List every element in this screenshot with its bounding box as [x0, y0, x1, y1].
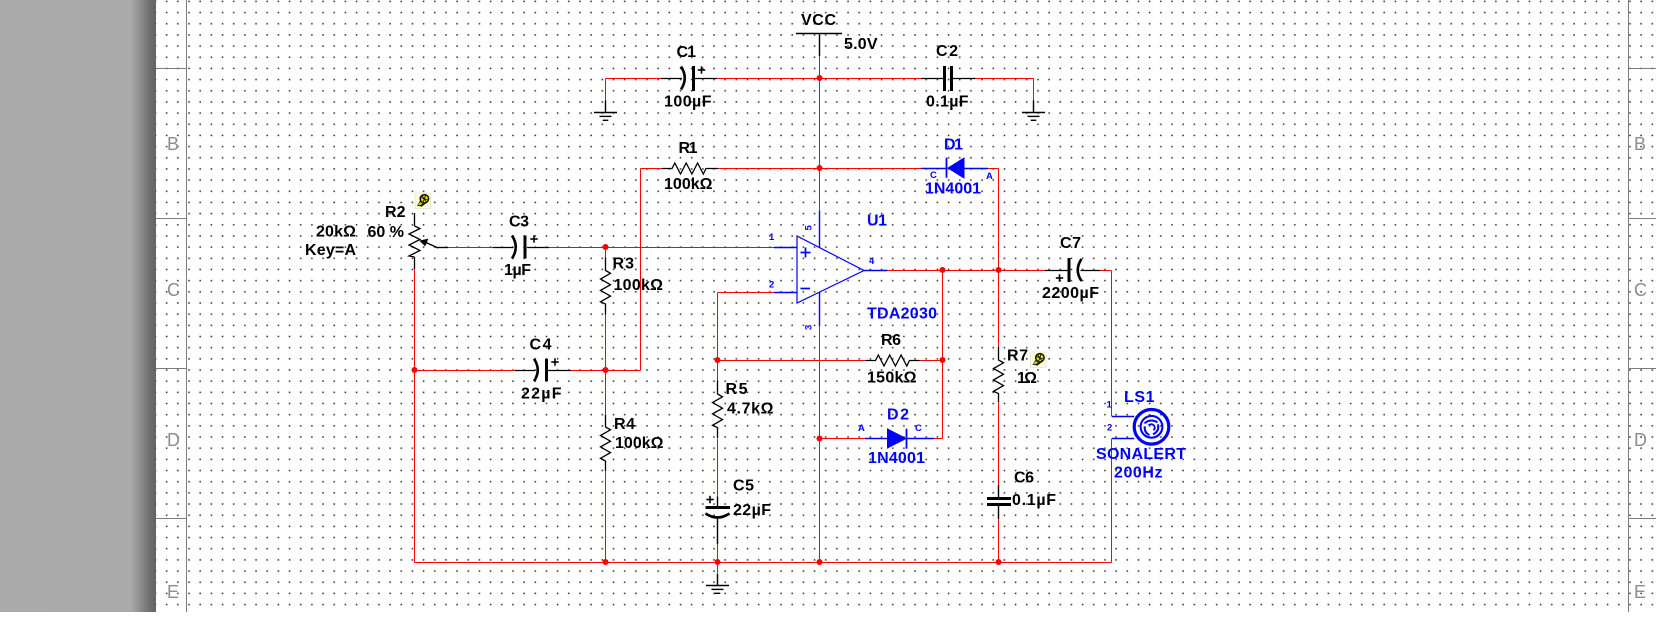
svg-text:1Ω: 1Ω	[1017, 370, 1037, 387]
wire LS1 pin2 down to bus	[1111, 439, 1113, 563]
node junction bus C5	[715, 559, 721, 565]
svg-text:U1: U1	[867, 213, 887, 230]
node junction plus input R3	[603, 244, 609, 250]
svg-text:R3: R3	[613, 256, 635, 273]
svg-text:100µF: 100µF	[664, 94, 712, 111]
wire output to R6 column	[942, 271, 944, 361]
sheet border left column line	[186, 0, 188, 612]
diode D2 symbol	[865, 429, 934, 449]
sheet border right column line	[1628, 0, 1630, 612]
svg-text:R1: R1	[679, 140, 698, 157]
wire wiper to C3	[448, 247, 493, 249]
ground under C2	[1022, 101, 1045, 121]
resistor R3 symbol	[601, 258, 611, 315]
svg-text:4.7kΩ: 4.7kΩ	[727, 401, 774, 418]
wire R4 top lead wire	[605, 371, 607, 415]
svg-text:1N4001: 1N4001	[925, 180, 981, 197]
resistor R7 symbol	[994, 347, 1004, 402]
svg-text:B: B	[1634, 134, 1646, 154]
svg-text:C1: C1	[677, 44, 697, 61]
svg-text:A: A	[858, 423, 865, 434]
svg-text:20kΩ: 20kΩ	[316, 223, 356, 240]
wire top rail middle segment	[717, 78, 921, 80]
wire C3 to op-amp plus input	[549, 247, 774, 249]
capacitor C4 symbol	[515, 358, 571, 381]
wire R5 top lead wire	[717, 361, 719, 381]
potentiometer R2 symbol	[409, 213, 448, 269]
wire R6 row right	[920, 360, 943, 362]
svg-text:Key=A: Key=A	[305, 242, 356, 259]
wire C2 ground drop	[1033, 79, 1035, 102]
svg-text:100kΩ: 100kΩ	[615, 435, 664, 452]
wire R7 top lead wire	[998, 271, 1000, 348]
svg-text:C5: C5	[733, 478, 754, 495]
wire R1 left column	[640, 169, 642, 371]
resistor R4 symbol	[601, 415, 611, 471]
svg-text:R7: R7	[1007, 348, 1028, 365]
resistor R5 symbol	[713, 381, 723, 439]
svg-text:60 %: 60 %	[368, 224, 405, 241]
svg-text:A: A	[986, 171, 993, 182]
border zone letters left	[167, 134, 180, 602]
wire C1 ground drop	[605, 79, 607, 102]
resistor R1 symbol	[662, 163, 718, 174]
svg-text:C: C	[930, 170, 937, 181]
wire C6 to bus	[998, 519, 1000, 563]
svg-text:C6: C6	[1014, 469, 1034, 486]
capacitor C5 symbol	[706, 496, 731, 544]
node junction bus R4	[603, 559, 609, 565]
svg-text:3: 3	[804, 325, 815, 330]
svg-text:R2: R2	[385, 204, 406, 221]
node junction bus C6	[996, 559, 1002, 565]
svg-text:5.0V: 5.0V	[844, 36, 878, 53]
svg-text:D2: D2	[887, 407, 909, 424]
svg-text:TDA2030: TDA2030	[867, 306, 937, 323]
wire output row	[888, 270, 1046, 272]
wire R6 row left	[718, 360, 866, 362]
wire C4 row left	[415, 370, 515, 372]
wire R1 row middle	[718, 168, 921, 170]
svg-text:LS1: LS1	[1124, 389, 1155, 406]
capacitor C1 symbol	[661, 66, 717, 91]
wire R2 bottom column	[414, 269, 416, 563]
svg-text:150kΩ: 150kΩ	[867, 369, 917, 386]
interactive key icon R2	[415, 193, 431, 209]
svg-text:200Hz: 200Hz	[1114, 465, 1163, 482]
power VCC symbol	[796, 34, 842, 57]
svg-text:2: 2	[1107, 423, 1112, 434]
capacitor C3 symbol	[493, 235, 549, 258]
diode D1 symbol	[921, 158, 988, 178]
svg-text:SONALERT: SONALERT	[1096, 446, 1186, 463]
wire C4 row right	[571, 370, 641, 372]
resistor R6 symbol	[866, 355, 920, 366]
capacitor C7 symbol	[1045, 258, 1100, 282]
svg-text:100kΩ: 100kΩ	[664, 176, 713, 193]
svg-text:0.1µF: 0.1µF	[926, 94, 969, 111]
svg-text:E: E	[167, 582, 179, 602]
node junction bus pin3	[817, 559, 823, 565]
left gray panel	[0, 0, 156, 612]
node junction R6 right	[940, 357, 946, 363]
svg-text:2200µF: 2200µF	[1042, 285, 1099, 302]
node junction VCC R1 row	[817, 165, 823, 171]
wire R4 bottom to bus	[605, 471, 607, 563]
wire D2 row left	[820, 438, 866, 440]
node junction D2 left	[817, 436, 823, 442]
wire minus input row	[718, 292, 775, 294]
wire R3 bottom to C4 row	[605, 315, 607, 371]
border row separators right	[1629, 69, 1656, 519]
svg-text:R5: R5	[726, 381, 748, 398]
wire minus input down column	[717, 293, 719, 361]
svg-text:E: E	[1634, 582, 1646, 602]
svg-text:1: 1	[1107, 400, 1113, 411]
speaker LS1 symbol	[1112, 410, 1169, 445]
node junction output D1 column	[996, 267, 1002, 273]
svg-text:D: D	[1634, 430, 1647, 450]
svg-text:R4: R4	[614, 416, 635, 433]
svg-text:1: 1	[769, 232, 775, 243]
wire D2 row right	[934, 438, 943, 440]
wire C5 to bus	[717, 544, 719, 563]
svg-text:C: C	[915, 423, 922, 434]
svg-text:2: 2	[769, 280, 774, 291]
svg-text:100kΩ: 100kΩ	[614, 277, 664, 294]
wire R5 to C5	[717, 439, 719, 497]
op-amp U1 symbol	[774, 211, 888, 326]
node junction C4 right	[603, 367, 609, 373]
capacitor C2 symbol	[921, 66, 976, 91]
svg-text:VCC: VCC	[801, 12, 836, 29]
wire R6 to D2 corner column	[942, 361, 944, 439]
svg-text:22µF: 22µF	[521, 386, 562, 403]
svg-text:R6: R6	[881, 332, 901, 349]
wire op-amp pin3 column down	[819, 326, 821, 563]
wire VCC column	[819, 56, 821, 211]
svg-text:C4: C4	[530, 337, 552, 354]
wire D1 right column	[998, 169, 1000, 271]
ground under C5	[706, 574, 729, 594]
svg-text:B: B	[167, 134, 179, 154]
svg-text:C7: C7	[1060, 235, 1081, 252]
interactive key icon R7	[1031, 352, 1047, 368]
node junction output R6 column	[940, 267, 946, 273]
svg-text:C2: C2	[936, 43, 958, 60]
svg-text:1N4001: 1N4001	[868, 450, 925, 467]
svg-text:C: C	[167, 280, 180, 300]
svg-text:4: 4	[869, 256, 875, 267]
node junction C4 left	[412, 367, 418, 373]
node junction VCC top rail	[817, 75, 823, 81]
wire top rail left segment	[606, 78, 662, 80]
wire R7 to C6	[998, 402, 1000, 485]
wire R1 row left	[641, 168, 663, 170]
ground under C1	[594, 101, 617, 121]
svg-text:0.1µF: 0.1µF	[1012, 492, 1056, 509]
border row separators left	[156, 69, 187, 519]
border zone letters right	[1634, 134, 1647, 602]
svg-text:22µF: 22µF	[733, 502, 771, 519]
node junction R6 left	[715, 357, 721, 363]
svg-text:C: C	[1634, 280, 1647, 300]
svg-text:1µF: 1µF	[504, 262, 531, 279]
wire C5 ground drop	[717, 563, 719, 574]
svg-text:C3: C3	[509, 213, 529, 230]
wire C7 to corner	[1100, 270, 1112, 272]
wire ground bus	[415, 562, 1112, 564]
wire R3 top lead wire	[605, 248, 607, 258]
svg-text:D1: D1	[944, 137, 963, 154]
wire D1 row right	[988, 168, 999, 170]
wire top rail right segment	[976, 78, 1034, 80]
wire C7 right column down to LS1	[1111, 271, 1113, 417]
svg-text:D: D	[167, 430, 180, 450]
capacitor C6 symbol	[987, 485, 1011, 519]
svg-text:5: 5	[804, 225, 815, 231]
